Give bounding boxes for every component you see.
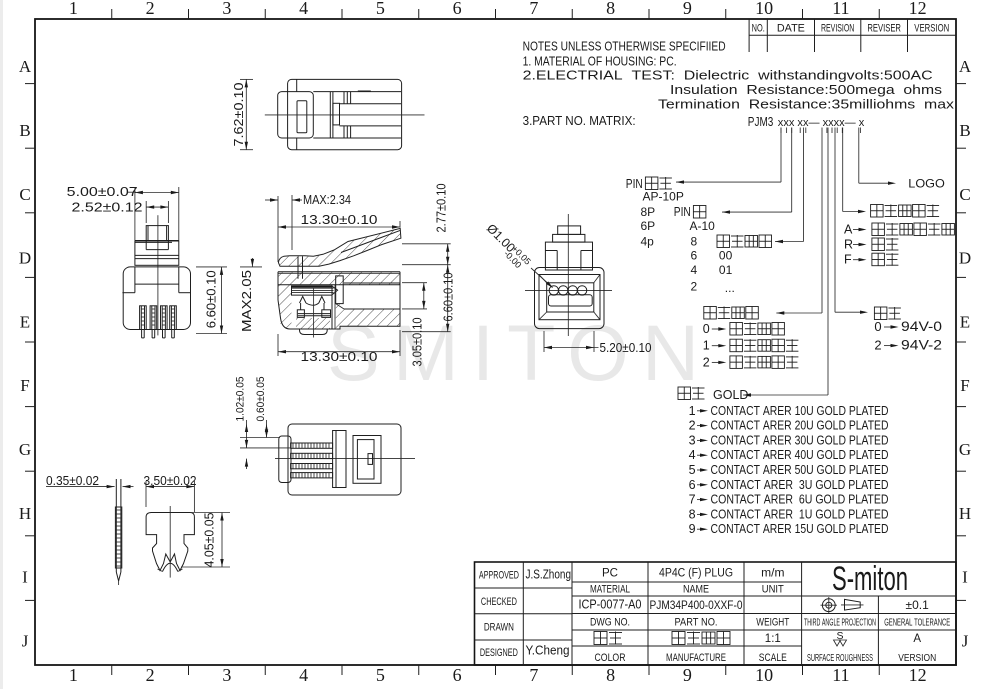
svg-text:NOTES UNLESS OTHERWISE SPECIFI: NOTES UNLESS OTHERWISE SPECIFIIED <box>523 40 726 54</box>
svg-text:12: 12 <box>909 0 927 18</box>
svg-text:DATE: DATE <box>777 23 805 35</box>
svg-text:94V-2: 94V-2 <box>901 338 942 353</box>
svg-text:xxx xx— xxxx— x: xxx xx— xxxx— x <box>778 117 865 129</box>
svg-text:1: 1 <box>69 0 78 18</box>
svg-text:D: D <box>19 249 31 268</box>
svg-text:m/m: m/m <box>761 566 784 580</box>
svg-text:UNIT: UNIT <box>762 584 784 596</box>
svg-text:11: 11 <box>832 0 849 18</box>
svg-text:12: 12 <box>909 665 927 685</box>
svg-text:APPROVED: APPROVED <box>479 570 519 582</box>
svg-text:MAX:2.34: MAX:2.34 <box>303 193 351 207</box>
svg-text:PJM3: PJM3 <box>748 115 774 129</box>
svg-text:REVISION: REVISION <box>821 23 854 35</box>
svg-text:Termination Resistance:35mill: Termination Resistance:35milliohms max <box>658 97 955 112</box>
svg-text:6.60±0.10: 6.60±0.10 <box>204 270 218 328</box>
svg-text:C: C <box>959 185 970 204</box>
svg-text:A: A <box>844 223 853 237</box>
svg-text:4: 4 <box>691 263 698 277</box>
svg-text:H: H <box>959 504 971 523</box>
svg-text:SURFACE ROUGHNESS: SURFACE ROUGHNESS <box>807 652 873 664</box>
svg-text:G: G <box>19 440 31 459</box>
svg-text:CONTACT ARER 3U GOLD PLATED: CONTACT ARER 3U GOLD PLATED <box>711 478 889 492</box>
svg-text:8: 8 <box>606 0 615 18</box>
svg-text:CHECKED: CHECKED <box>481 596 517 608</box>
svg-text:6: 6 <box>689 478 696 492</box>
svg-text:PART NO.: PART NO. <box>675 617 718 629</box>
svg-text:1: 1 <box>689 404 696 418</box>
svg-text:CONTACT ARER 20U GOLD PLATED: CONTACT ARER 20U GOLD PLATED <box>711 419 889 433</box>
svg-text:2: 2 <box>146 665 155 685</box>
svg-text:2: 2 <box>689 419 696 433</box>
svg-text:VERSION: VERSION <box>914 23 949 35</box>
svg-text:2: 2 <box>691 280 698 294</box>
svg-text:5: 5 <box>376 0 385 18</box>
svg-text:C: C <box>19 185 30 204</box>
svg-text:2.77±0.10: 2.77±0.10 <box>435 183 449 232</box>
svg-text:4.05±0.05: 4.05±0.05 <box>203 512 217 567</box>
svg-text:8: 8 <box>691 235 698 249</box>
svg-text:10: 10 <box>755 0 773 18</box>
svg-text:I: I <box>962 568 968 587</box>
svg-text:ICP-0077-A0: ICP-0077-A0 <box>579 598 642 612</box>
svg-text:0: 0 <box>874 319 881 334</box>
svg-text:MANUFACTURE: MANUFACTURE <box>666 652 726 664</box>
svg-text:±0.1: ±0.1 <box>906 598 930 612</box>
svg-text:5: 5 <box>689 463 696 477</box>
svg-text:7.62±0.10: 7.62±0.10 <box>232 82 246 146</box>
svg-text:6: 6 <box>691 248 698 262</box>
svg-text:10: 10 <box>755 665 773 685</box>
svg-text:A: A <box>913 633 921 645</box>
svg-text:PIN: PIN <box>674 204 691 219</box>
svg-text:VERSION: VERSION <box>898 652 936 664</box>
svg-text:3: 3 <box>222 665 231 685</box>
svg-text:9: 9 <box>683 665 692 685</box>
svg-text:A-10: A-10 <box>690 219 716 233</box>
svg-text:7: 7 <box>529 0 538 18</box>
svg-text:13.30±0.10: 13.30±0.10 <box>301 213 378 227</box>
svg-text:A: A <box>19 57 32 76</box>
svg-text:9: 9 <box>689 522 696 536</box>
svg-text:6P: 6P <box>641 219 656 233</box>
svg-text:PC: PC <box>602 568 618 580</box>
svg-text:1: 1 <box>69 665 78 685</box>
svg-text:MAX2.05: MAX2.05 <box>240 270 254 332</box>
svg-text:13.30±0.10: 13.30±0.10 <box>301 350 378 364</box>
svg-text:8: 8 <box>689 507 696 521</box>
svg-text:F: F <box>20 376 29 395</box>
svg-text:4P4C (F) PLUG: 4P4C (F) PLUG <box>659 568 733 580</box>
svg-text:3.PART NO. MATRIX:: 3.PART NO. MATRIX: <box>523 114 636 128</box>
svg-text:8P: 8P <box>641 205 656 219</box>
svg-text:PJM34P400-0XXF-0: PJM34P400-0XXF-0 <box>650 598 743 612</box>
svg-text:PIN: PIN <box>626 176 643 191</box>
svg-text:J: J <box>962 632 969 651</box>
svg-text:5: 5 <box>376 665 385 685</box>
svg-text:4: 4 <box>689 448 696 462</box>
svg-text:01: 01 <box>719 263 733 277</box>
svg-text:00: 00 <box>719 248 733 262</box>
svg-text:1: 1 <box>703 339 710 353</box>
svg-text:4: 4 <box>299 665 308 685</box>
svg-text:7: 7 <box>529 665 538 685</box>
svg-text:6: 6 <box>453 665 462 685</box>
svg-text:I: I <box>22 568 28 587</box>
svg-text:0: 0 <box>703 322 710 336</box>
svg-text:NAME: NAME <box>683 584 709 596</box>
svg-text:DRAWN: DRAWN <box>484 622 514 634</box>
svg-text:REVISER: REVISER <box>867 23 901 35</box>
svg-text:R: R <box>844 238 853 252</box>
svg-text:THIRD ANGLE PROJECTION: THIRD ANGLE PROJECTION <box>804 617 876 629</box>
svg-text:CONTACT ARER 40U GOLD PLATED: CONTACT ARER 40U GOLD PLATED <box>711 448 889 462</box>
svg-text:3: 3 <box>222 0 231 18</box>
svg-text:F: F <box>844 253 852 267</box>
svg-text:J: J <box>22 632 29 651</box>
svg-text:CONTACT ARER 10U GOLD PLATED: CONTACT ARER 10U GOLD PLATED <box>711 404 889 418</box>
svg-text:LOGO: LOGO <box>908 177 945 191</box>
svg-text:1. MATERIAL OF HOUSING: PC.: 1. MATERIAL OF HOUSING: PC. <box>523 55 677 69</box>
svg-text:Y.Cheng: Y.Cheng <box>526 643 570 658</box>
svg-text:5.20±0.10: 5.20±0.10 <box>600 341 652 355</box>
svg-text:CONTACT ARER 6U GOLD PLATED: CONTACT ARER 6U GOLD PLATED <box>711 493 889 507</box>
svg-text:D: D <box>959 249 971 268</box>
svg-text:S-miton: S-miton <box>832 560 908 598</box>
svg-text:DWG NO.: DWG NO. <box>590 617 630 629</box>
svg-text:E: E <box>960 313 970 332</box>
svg-text:6: 6 <box>453 0 462 18</box>
svg-text:Insulation Resistance:500mega: Insulation Resistance:500mega ohms <box>670 82 943 97</box>
svg-text:6.60±0.10: 6.60±0.10 <box>442 272 456 321</box>
svg-text:9: 9 <box>683 0 692 18</box>
svg-text:2: 2 <box>146 0 155 18</box>
svg-text:SCALE: SCALE <box>759 652 787 664</box>
svg-text:AP-10P: AP-10P <box>643 190 684 204</box>
svg-text:2.ELECTRIAL TEST: Dielectric: 2.ELECTRIAL TEST: Dielectric withstandin… <box>523 68 933 83</box>
svg-text:2: 2 <box>874 338 881 353</box>
svg-text:8: 8 <box>606 665 615 685</box>
svg-text:0.60±0.05: 0.60±0.05 <box>255 377 267 422</box>
svg-text:1.02±0.05: 1.02±0.05 <box>235 377 247 422</box>
svg-text:4: 4 <box>299 0 308 18</box>
svg-text:H: H <box>19 504 31 523</box>
svg-text:B: B <box>959 121 970 140</box>
svg-text:3.05±0.10: 3.05±0.10 <box>411 317 425 366</box>
svg-text:5.00±0.07: 5.00±0.07 <box>67 185 138 199</box>
svg-text:2: 2 <box>703 355 710 369</box>
svg-text:A: A <box>959 57 972 76</box>
svg-text:B: B <box>19 121 30 140</box>
svg-text:CONTACT ARER 30U GOLD PLATED: CONTACT ARER 30U GOLD PLATED <box>711 433 889 447</box>
svg-text:94V-0: 94V-0 <box>901 319 942 334</box>
svg-text:2.52±0.12: 2.52±0.12 <box>72 200 143 214</box>
svg-text:F: F <box>960 376 969 395</box>
svg-text:WEIGHT: WEIGHT <box>756 617 789 629</box>
svg-text:MATERIAL: MATERIAL <box>590 584 630 596</box>
svg-text:3: 3 <box>689 433 696 447</box>
svg-text:0.35±0.02: 0.35±0.02 <box>46 474 99 488</box>
svg-text:DESIGNED: DESIGNED <box>480 647 518 659</box>
svg-text:NO.: NO. <box>752 23 765 35</box>
svg-text:E: E <box>20 313 30 332</box>
svg-text:CONTACT ARER 1U GOLD PLATED: CONTACT ARER 1U GOLD PLATED <box>711 507 889 521</box>
svg-text:COLOR: COLOR <box>595 652 626 664</box>
svg-text:1:1: 1:1 <box>765 633 781 645</box>
svg-text:11: 11 <box>832 665 849 685</box>
svg-text:GENERAL TOLERANCE: GENERAL TOLERANCE <box>884 617 950 629</box>
svg-text:J.S.Zhong: J.S.Zhong <box>526 568 572 582</box>
svg-text:4p: 4p <box>641 235 655 249</box>
svg-text:G: G <box>959 440 971 459</box>
svg-text:CONTACT ARER 15U GOLD PLATED: CONTACT ARER 15U GOLD PLATED <box>711 522 889 536</box>
svg-text:GOLD: GOLD <box>713 388 748 402</box>
svg-text:...: ... <box>725 281 735 295</box>
svg-text:7: 7 <box>689 493 696 507</box>
svg-text:CONTACT ARER 50U GOLD PLATED: CONTACT ARER 50U GOLD PLATED <box>711 463 889 477</box>
